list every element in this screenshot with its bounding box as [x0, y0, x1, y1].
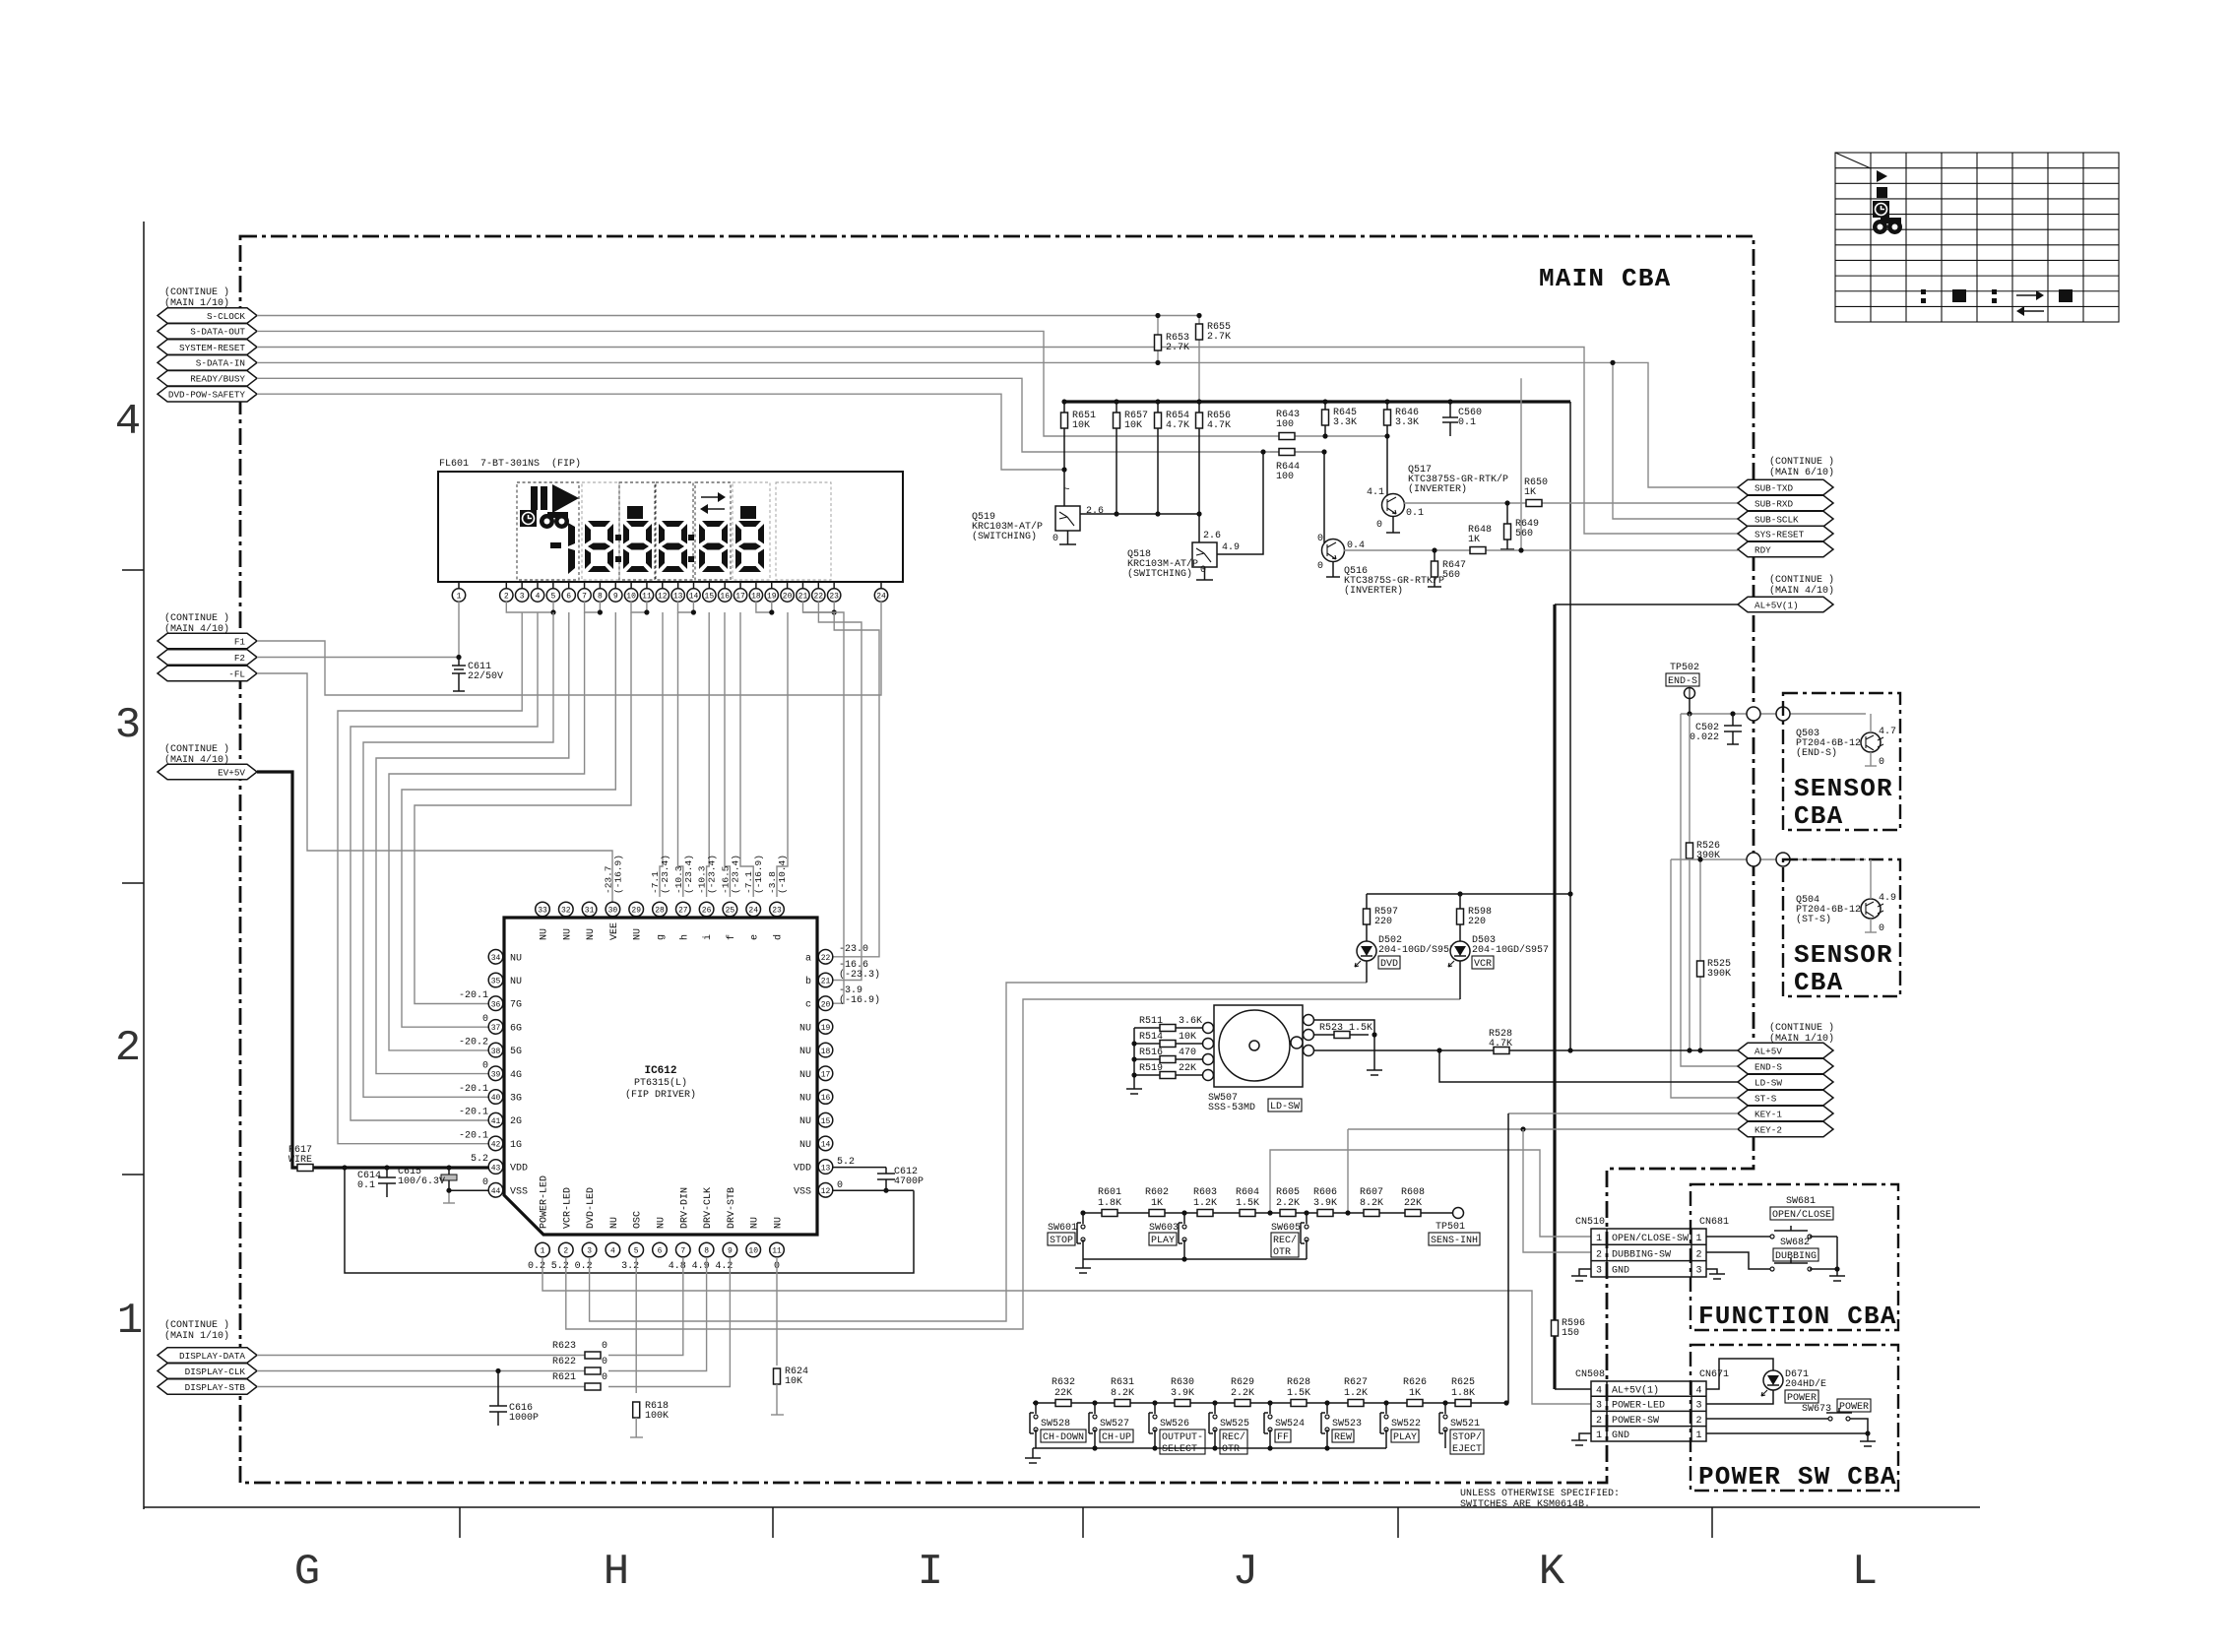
svg-text:REC/: REC/: [1273, 1235, 1297, 1246]
resistor R598: [1459, 894, 1461, 942]
wire READY/BUSY join RDY line: [1520, 378, 1522, 550]
svg-text:27: 27: [678, 907, 688, 916]
svg-text:e: e: [750, 934, 761, 940]
svg-text:2.2K: 2.2K: [1231, 1388, 1254, 1399]
svg-text:d: d: [773, 934, 785, 940]
IC612 pin 27 (h): [676, 902, 691, 917]
wire -FL run to VEE pin30: [257, 673, 612, 904]
capacitor C616: [495, 1368, 500, 1373]
svg-text:CN681: CN681: [1699, 1217, 1729, 1228]
resistor R649: [1506, 503, 1508, 549]
SW507 left terminals: [1203, 1023, 1214, 1034]
junction R526/R525 on AL+5V rail: [1687, 1048, 1691, 1052]
svg-text:100/6.3V: 100/6.3V: [398, 1175, 445, 1187]
resistor R646: [1386, 402, 1388, 505]
svg-text:END-S: END-S: [1668, 676, 1697, 687]
IC612 pin 36 (7G): [488, 996, 503, 1011]
IC612 pin 21 (b): [818, 973, 833, 987]
svg-text:R622: R622: [552, 1357, 576, 1367]
net flag ST-S: [1738, 1090, 1833, 1106]
svg-text:OSC: OSC: [633, 1211, 644, 1229]
IC612 pin 30 (VEE): [606, 902, 620, 917]
svg-text:24: 24: [876, 593, 886, 602]
svg-text:(CONTINUE ): (CONTINUE ): [1769, 1022, 1834, 1034]
resistor R643: [1279, 433, 1295, 440]
svg-text:20: 20: [783, 593, 793, 602]
wire VDD pin13 to C612: [832, 1167, 886, 1169]
wire FL601 fan to IC612 pin 36: [415, 612, 631, 1004]
svg-text:2: 2: [1596, 1416, 1602, 1427]
capacitor C611: [458, 658, 460, 667]
svg-text:22K: 22K: [1179, 1063, 1196, 1074]
FL601 pin 4: [537, 582, 539, 589]
svg-text:8.2K: 8.2K: [1111, 1388, 1134, 1399]
svg-text:LD-SW: LD-SW: [1754, 1077, 1782, 1088]
wire DRV-CLK pin8 route: [608, 1257, 707, 1371]
svg-text:3.9K: 3.9K: [1171, 1388, 1194, 1399]
svg-text:204-10GD/S957: 204-10GD/S957: [1472, 944, 1549, 956]
svg-text:(-16.9): (-16.9): [753, 855, 764, 894]
svg-text:h: h: [678, 934, 690, 940]
power wire EV+5V run: [257, 772, 313, 1168]
svg-text:TP501: TP501: [1435, 1222, 1465, 1233]
wire FL601 fan to IC612 pin 41: [351, 612, 538, 1120]
test point TP501: [1453, 1208, 1464, 1219]
svg-text:(-23.4): (-23.4): [730, 855, 740, 894]
svg-text:2: 2: [1596, 1249, 1602, 1260]
svg-text:S-DATA-IN: S-DATA-IN: [196, 358, 245, 369]
resistor R608: [1405, 1210, 1421, 1217]
net flag AL+5V: [1738, 1043, 1833, 1058]
wire KEY-2 link: [1348, 1128, 1738, 1130]
resistor R626: [1407, 1400, 1423, 1407]
IC612 pin 37 (6G): [488, 1020, 503, 1035]
svg-text:0.1: 0.1: [1458, 417, 1476, 428]
svg-text:SW525: SW525: [1220, 1419, 1249, 1430]
net flag S-DATA-OUT: [158, 324, 257, 340]
svg-text:11: 11: [642, 593, 652, 602]
FL601 pause icon: [531, 486, 538, 510]
ground CN510 pin3: [1579, 1269, 1591, 1276]
net flag SUB-TXD: [1738, 479, 1833, 495]
svg-text:SYS-RESET: SYS-RESET: [1754, 529, 1805, 540]
svg-text:NU: NU: [799, 1047, 811, 1057]
FL601 digit box 5: [695, 482, 731, 580]
svg-text:DVD-POW-SAFETY: DVD-POW-SAFETY: [168, 390, 246, 401]
svg-text:(-10.4): (-10.4): [777, 855, 788, 894]
capacitor C615 (electrolytic): [446, 1165, 451, 1170]
svg-text:TP502: TP502: [1670, 663, 1699, 673]
svg-text:34: 34: [491, 954, 501, 963]
wire SW507 ladder bus: [1133, 1028, 1135, 1089]
FL601 digit 8 (1): [585, 521, 613, 572]
svg-text:K: K: [1539, 1548, 1565, 1597]
IC612 pin 38 (5G): [488, 1043, 503, 1057]
svg-text:1: 1: [541, 1247, 545, 1256]
svg-text:10K: 10K: [1072, 420, 1090, 431]
wire SW681/682 common: [1836, 1237, 1838, 1276]
svg-text:4: 4: [610, 1247, 615, 1256]
FL601 pin 22: [817, 582, 819, 589]
svg-text:23: 23: [772, 907, 782, 916]
svg-text:DISPLAY-STB: DISPLAY-STB: [185, 1382, 246, 1393]
wire key row 1 return: [1083, 1258, 1307, 1260]
svg-text:24: 24: [748, 907, 758, 916]
ground key row 2: [1032, 1448, 1034, 1458]
svg-text:POWER: POWER: [1787, 1393, 1817, 1404]
svg-text:560: 560: [1442, 570, 1460, 581]
svg-text:4.9: 4.9: [1879, 893, 1896, 904]
svg-text:R621: R621: [552, 1372, 576, 1383]
svg-text:41: 41: [491, 1117, 501, 1126]
svg-text:3.3K: 3.3K: [1395, 417, 1419, 428]
LED D502: [1357, 941, 1376, 961]
FL601 pin 6: [568, 582, 570, 589]
net flag SUB-RXD: [1738, 495, 1833, 511]
svg-text:OPEN/CLOSE-SW: OPEN/CLOSE-SW: [1612, 1233, 1689, 1244]
svg-text:EV+5V: EV+5V: [218, 767, 245, 778]
svg-text:STOP/: STOP/: [1452, 1431, 1482, 1443]
wire S-DATA-OUT run: [257, 331, 1387, 436]
wire FL601 drop to IC612 pin 28: [660, 612, 663, 897]
svg-text:22: 22: [821, 954, 831, 963]
svg-text:R602: R602: [1145, 1187, 1169, 1198]
svg-text:33: 33: [538, 907, 547, 916]
wire FL601 pin join 7-8: [585, 602, 601, 612]
svg-text:3.3K: 3.3K: [1333, 417, 1357, 428]
resistor R516: [1134, 1058, 1202, 1060]
svg-text:NU: NU: [799, 1116, 811, 1127]
FL601 rec square 1: [627, 506, 643, 519]
svg-text:36: 36: [491, 1000, 501, 1009]
svg-text:SW524: SW524: [1275, 1419, 1305, 1430]
legend cassette icon: [1873, 218, 1902, 234]
svg-text:NU: NU: [633, 928, 644, 940]
Q517 emitter stub: [1392, 517, 1394, 534]
svg-text:SUB-TXD: SUB-TXD: [1754, 482, 1793, 493]
switch SW521: [1442, 1400, 1447, 1405]
svg-text:PLAY: PLAY: [1151, 1236, 1175, 1246]
switch SW528: [1033, 1400, 1038, 1405]
svg-text:8: 8: [598, 593, 603, 602]
sheet border bottom line: [144, 1506, 1980, 1508]
svg-text:0.1: 0.1: [357, 1180, 375, 1191]
svg-text:(MAIN 1/10): (MAIN 1/10): [164, 1330, 229, 1342]
wire LD-SW branch to flag: [1439, 1050, 1738, 1082]
svg-text:21: 21: [798, 593, 808, 602]
svg-text:VDD: VDD: [794, 1164, 811, 1175]
svg-text:AL+5V(1): AL+5V(1): [1612, 1385, 1659, 1397]
wire key row 1 branch B: [1347, 1129, 1349, 1213]
transistor Q517: [1382, 494, 1405, 517]
wire LED feed bus: [1367, 893, 1570, 895]
resistor R628: [1291, 1400, 1307, 1407]
svg-text:(CONTINUE ): (CONTINUE ): [1769, 456, 1834, 468]
svg-text:(-23.4): (-23.4): [707, 855, 718, 894]
svg-text:DRV-DIN: DRV-DIN: [679, 1187, 690, 1229]
svg-text:18: 18: [751, 593, 761, 602]
svg-text:0.022: 0.022: [1690, 732, 1719, 743]
svg-text:KEY-2: KEY-2: [1754, 1124, 1782, 1135]
svg-text:0: 0: [602, 1341, 607, 1352]
legend clock icon: [1873, 201, 1889, 218]
resistor R629: [1235, 1400, 1250, 1407]
FL601 pin 15: [708, 582, 710, 589]
svg-text:0: 0: [1879, 757, 1884, 768]
legend colon 1: [1921, 289, 1926, 294]
svg-text:(-23.4): (-23.4): [683, 855, 694, 894]
svg-text:2: 2: [1695, 1416, 1701, 1427]
FL601 pin 7: [584, 582, 586, 589]
svg-text:31: 31: [585, 907, 595, 916]
IC612 pin 4 (NU): [606, 1242, 620, 1257]
wire D671 cathode to pin3: [1706, 1390, 1773, 1404]
svg-text:19: 19: [821, 1024, 831, 1033]
svg-text:GND: GND: [1612, 1430, 1629, 1441]
resistor R651: [1063, 402, 1065, 470]
svg-text:22/50V: 22/50V: [468, 670, 503, 682]
wire key row 2 return: [1033, 1447, 1386, 1449]
IC IC612 PT6315 body: [504, 918, 817, 1235]
svg-text:i: i: [702, 934, 714, 940]
svg-text:MAIN CBA: MAIN CBA: [1539, 264, 1671, 293]
switch SW605: [1304, 1210, 1308, 1215]
svg-text:(CONTINUE ): (CONTINUE ): [164, 612, 229, 624]
svg-text:CBA: CBA: [1794, 968, 1843, 997]
svg-text:(END-S): (END-S): [1796, 747, 1837, 759]
wire FL601 drop to IC612 pin 26: [707, 612, 710, 897]
resistor R604: [1240, 1210, 1255, 1217]
svg-text:SENS-INH: SENS-INH: [1431, 1236, 1478, 1246]
FL601 arrows icon: [701, 496, 718, 498]
svg-text:NU: NU: [799, 1094, 811, 1105]
svg-text:100K: 100K: [645, 1411, 669, 1422]
wire NU pin11: [776, 1257, 778, 1366]
svg-text:CN508: CN508: [1575, 1369, 1605, 1380]
svg-text:L: L: [1852, 1548, 1878, 1597]
svg-text:1.5K: 1.5K: [1236, 1198, 1259, 1209]
svg-text:(CONTINUE ): (CONTINUE ): [1769, 574, 1834, 586]
svg-text:6: 6: [566, 593, 571, 602]
resistor R621: [585, 1383, 601, 1390]
svg-text:SW521: SW521: [1450, 1419, 1480, 1430]
wire END-S to flag: [1681, 714, 1738, 1066]
IC612 pin 44 (VSS): [488, 1183, 503, 1198]
svg-text:CH-DOWN: CH-DOWN: [1043, 1432, 1084, 1443]
wire Q517 collector to SUB-RXD: [1404, 502, 1738, 504]
svg-text:1.2K: 1.2K: [1344, 1388, 1368, 1399]
wire AL+5V(1) vertical to rail: [1569, 402, 1571, 1050]
svg-text:(SWITCHING): (SWITCHING): [972, 531, 1037, 542]
svg-text:R608: R608: [1401, 1187, 1425, 1198]
svg-text:39: 39: [491, 1071, 501, 1080]
svg-text:204-10GD/S957: 204-10GD/S957: [1378, 944, 1455, 956]
wire FL601 fan to IC612 pin 39: [376, 612, 569, 1074]
IC612 pin 22 (a): [818, 950, 833, 965]
resistor R657: [1116, 402, 1117, 514]
svg-text:12: 12: [821, 1187, 831, 1196]
svg-text:R516: R516: [1139, 1048, 1163, 1058]
FL601 pin 13: [677, 582, 679, 589]
IC612 pin 15 (NU): [818, 1112, 833, 1127]
net flag F2: [158, 650, 257, 666]
svg-text:OTR: OTR: [1222, 1444, 1240, 1455]
svg-text:NU: NU: [510, 953, 522, 964]
svg-text:SW603: SW603: [1149, 1223, 1179, 1234]
switch SW523: [1324, 1400, 1329, 1405]
ground CN681 pin3: [1706, 1269, 1717, 1274]
svg-text:3: 3: [1596, 1401, 1602, 1412]
svg-text:PLAY: PLAY: [1393, 1432, 1417, 1443]
svg-text:DISPLAY-CLK: DISPLAY-CLK: [185, 1366, 246, 1377]
net flag LD-SW: [1738, 1074, 1833, 1090]
svg-text:150: 150: [1562, 1328, 1579, 1339]
capacitor C502: [1732, 714, 1734, 726]
svg-text:R630: R630: [1171, 1377, 1194, 1388]
net flag DISPLAY-CLK: [158, 1364, 257, 1379]
resistor R625: [1455, 1400, 1471, 1407]
svg-text:0: 0: [602, 1372, 607, 1383]
svg-text:-20.2: -20.2: [459, 1038, 488, 1048]
svg-text:AL+5V: AL+5V: [1754, 1046, 1782, 1056]
net flag SUB-SCLK: [1738, 511, 1833, 527]
svg-text:38: 38: [491, 1048, 501, 1056]
resistor R623: [585, 1352, 601, 1359]
FL601 pin 16: [724, 582, 726, 589]
IC612 pin 29 (NU): [629, 902, 644, 917]
POWER SW CBA box: [1691, 1345, 1898, 1491]
wire DRV-DIN pin7 route: [608, 1257, 683, 1356]
wire FL601 pin join 21-23: [803, 602, 835, 612]
svg-text:(-16.9): (-16.9): [839, 994, 880, 1006]
IC612 pin 39 (4G): [488, 1066, 503, 1081]
svg-text:10K: 10K: [785, 1376, 802, 1387]
svg-text:R514: R514: [1139, 1032, 1163, 1043]
svg-text:17: 17: [735, 593, 745, 602]
svg-text:0: 0: [837, 1180, 843, 1191]
net flag KEY-1: [1738, 1106, 1833, 1121]
wire D502 cathode: [1366, 961, 1368, 983]
svg-text:5.2: 5.2: [837, 1157, 855, 1168]
IC612 pin 13 (VDD): [818, 1160, 833, 1175]
wire R644 to Q516 base: [1323, 452, 1325, 544]
IC612 pin 14 (NU): [818, 1136, 833, 1151]
svg-text:1: 1: [457, 593, 462, 602]
svg-text:2.2K: 2.2K: [1276, 1198, 1300, 1209]
wire FL601 fan to IC612 pin 40: [363, 612, 553, 1097]
switch SW526: [1152, 1400, 1157, 1405]
svg-text:4G: 4G: [510, 1070, 522, 1081]
svg-text:S-CLOCK: S-CLOCK: [207, 311, 245, 322]
IC612 pin 33 (NU): [536, 902, 550, 917]
FL601 cassette icon: [540, 512, 569, 529]
resistor R607: [1364, 1210, 1379, 1217]
svg-text:I: I: [918, 1548, 943, 1597]
svg-text:SW681: SW681: [1786, 1196, 1816, 1207]
svg-text:22K: 22K: [1054, 1388, 1072, 1399]
svg-text:28: 28: [655, 907, 665, 916]
MAIN CBA board outline (dash-dot): [240, 236, 1754, 1483]
svg-text:35: 35: [491, 978, 501, 986]
svg-text:R604: R604: [1236, 1187, 1259, 1198]
svg-text:-20.1: -20.1: [459, 1084, 488, 1095]
svg-text:R631: R631: [1111, 1377, 1134, 1388]
IC612 pin 41 (2G): [488, 1112, 503, 1127]
svg-text:DVD: DVD: [1380, 959, 1398, 970]
svg-text:16: 16: [821, 1094, 831, 1103]
IC612 pin 11 (NU): [770, 1242, 785, 1257]
wire VSS pin12 to C612: [832, 1189, 914, 1191]
net flag END-S: [1738, 1058, 1833, 1074]
IC612 pin 42 (1G): [488, 1136, 503, 1151]
svg-text:10: 10: [748, 1247, 758, 1256]
svg-text:20: 20: [821, 1000, 831, 1009]
svg-text:NU: NU: [799, 1070, 811, 1081]
ground key row 1: [1082, 1259, 1084, 1268]
IC612 pin 34 (NU): [488, 950, 503, 965]
IC612 pin 10 (NU): [746, 1242, 761, 1257]
svg-text:f: f: [726, 934, 737, 940]
svg-text:STOP: STOP: [1050, 1236, 1073, 1246]
fluorescent display FL601 body: [438, 472, 903, 582]
svg-text:42: 42: [491, 1141, 501, 1150]
svg-text:4: 4: [115, 398, 141, 447]
svg-text:3.9K: 3.9K: [1313, 1198, 1337, 1209]
svg-text:2: 2: [115, 1024, 141, 1073]
svg-text:2.7K: 2.7K: [1207, 332, 1231, 343]
FL601 pin 19: [771, 582, 773, 589]
svg-text:(-23.3): (-23.3): [839, 969, 880, 981]
border pass circle ST-S 2: [1776, 853, 1790, 866]
svg-text:SWITCHES ARE KSM0614B.: SWITCHES ARE KSM0614B.: [1460, 1499, 1590, 1510]
IC612 pin 3 (DVD-LED): [582, 1242, 597, 1257]
svg-text:5G: 5G: [510, 1047, 522, 1057]
wire FL601 drop to IC612 pin 25: [725, 612, 730, 897]
wire Q516 collector to RDY: [1344, 549, 1738, 551]
svg-text:9: 9: [613, 593, 618, 602]
svg-text:R606: R606: [1313, 1187, 1337, 1198]
wire DISPLAY-STB run: [257, 1386, 585, 1388]
resistor R528: [1494, 1048, 1509, 1054]
svg-text:1.8K: 1.8K: [1098, 1198, 1121, 1209]
wire Q519 output: [1080, 513, 1199, 515]
svg-text:R603: R603: [1193, 1187, 1217, 1198]
svg-text:13: 13: [821, 1164, 831, 1173]
wire ST-S to flag: [1671, 859, 1738, 1098]
svg-text:1: 1: [1596, 1234, 1602, 1244]
wire FL601 drop to IC612 pin 27: [678, 612, 683, 897]
svg-text:(INVERTER): (INVERTER): [1408, 483, 1467, 495]
wire SW673 to GND net: [1850, 1419, 1868, 1433]
resistor R656: [1198, 402, 1200, 542]
IC612 pin 5 (OSC): [629, 1242, 644, 1257]
wire READY/BUSY run: [257, 378, 1324, 452]
FL601 digit box 3: [619, 482, 655, 580]
FL601 pin 11: [646, 582, 648, 589]
svg-text:1: 1: [1695, 1430, 1701, 1441]
svg-text:14: 14: [689, 593, 699, 602]
svg-text:560: 560: [1515, 529, 1533, 540]
svg-text:PT6315(L): PT6315(L): [634, 1077, 687, 1089]
wire CN671 pin1 GND: [1706, 1432, 1868, 1434]
svg-text:1: 1: [1695, 1234, 1701, 1244]
wire FL601 fan to IC612 pin 37: [402, 612, 615, 1027]
resistor R618: [633, 1402, 640, 1418]
FL601 digit 8 (3): [659, 521, 687, 572]
svg-text:SENSOR: SENSOR: [1794, 940, 1893, 970]
FUNCTION CBA box: [1691, 1184, 1898, 1330]
svg-text:VSS: VSS: [510, 1186, 528, 1197]
